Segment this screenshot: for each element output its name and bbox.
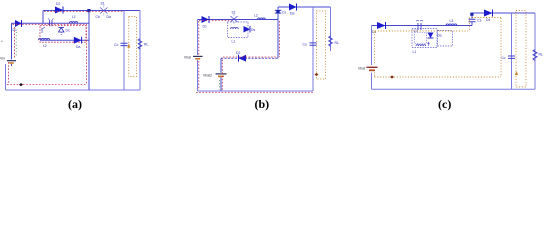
red vertical beside battery lower — [8, 62, 10, 85]
svg-text:Vbat: Vbat — [184, 56, 191, 60]
wire battery2 stem b — [220, 58, 222, 91]
orange dotted path (c) — [375, 18, 502, 78]
capacitor C2 series on rail (c) — [416, 21, 423, 30]
wire C3 stem c — [471, 13, 473, 26]
red path on top rail — [44, 11, 124, 13]
svg-text:Cs: Cs — [282, 11, 286, 15]
diode D1 (c) — [372, 22, 386, 34]
svg-text:L2: L2 — [254, 14, 258, 18]
capacitor Co (a) — [114, 43, 128, 47]
diode Da (b) — [289, 4, 297, 16]
svg-text:RL: RL — [144, 43, 148, 47]
wire top right rail c — [472, 12, 535, 14]
orange left battery path c — [374, 32, 376, 78]
inductor inside box (b) — [231, 27, 239, 29]
wire lower-left edge a — [5, 64, 7, 90]
diode D2 (a) top rail — [55, 2, 63, 14]
inductor L1 inside box (c) — [416, 43, 430, 47]
resistor RL (b) — [329, 36, 333, 46]
diode Ds inside box (b) — [244, 26, 256, 33]
svg-text:Co: Co — [114, 43, 118, 47]
orange down right mid c — [500, 18, 502, 77]
battery Vbat2 (b) — [203, 74, 227, 78]
orange dotted load loop (c) — [516, 11, 526, 88]
junction node (a) top rail — [87, 9, 90, 12]
red battery2 path b — [221, 60, 223, 91]
orange below main rail c — [375, 30, 468, 32]
wire top rail b — [198, 19, 279, 21]
dashed component box (b) — [228, 22, 249, 38]
svg-text:Vin: Vin — [0, 57, 5, 61]
wire right edge a — [139, 11, 141, 91]
wire battery branch a — [11, 23, 13, 66]
capacitor Co (b) — [303, 43, 317, 47]
battery Vin (a) — [0, 57, 16, 64]
orange up to top rail c — [469, 18, 471, 31]
arrow diamond (b) — [315, 73, 319, 76]
inductor L1 on rail2 (a) — [70, 22, 78, 24]
wire main rail c — [372, 25, 473, 27]
svg-text:Co: Co — [501, 56, 505, 60]
wire Co branch c — [511, 13, 513, 89]
wire rail y58 b — [221, 57, 278, 59]
wire left edge b — [197, 20, 199, 92]
diode Ds vertical (a) — [59, 28, 70, 36]
wire bottom a — [6, 89, 141, 91]
svg-text:Ds: Ds — [66, 29, 70, 33]
svg-text:L1: L1 — [413, 50, 417, 54]
svg-text:D4: D4 — [486, 18, 490, 22]
svg-text:RL: RL — [335, 41, 339, 45]
svg-text:S1: S1 — [101, 2, 105, 6]
orange along top rail c — [472, 17, 501, 19]
wire Co branch a — [123, 11, 125, 91]
svg-text:D2: D2 — [56, 2, 60, 6]
battery Vbat (c) — [358, 67, 378, 71]
svg-text:C3: C3 — [477, 19, 481, 23]
wire RL branch b — [330, 7, 332, 51]
resistor RL (a) on right edge — [138, 39, 142, 49]
capacitor Co (c) — [501, 56, 515, 60]
red path on rail2 — [13, 23, 87, 25]
diode Ds down (c) — [428, 33, 442, 39]
red on left edge b — [198, 21, 200, 55]
svg-text:(b): (b) — [255, 97, 270, 111]
wire rail2 a — [12, 22, 90, 24]
diode D1 (b) — [202, 16, 210, 29]
red on top rail b — [199, 20, 232, 22]
svg-text:D2: D2 — [236, 51, 240, 55]
arrow diamond (a) — [19, 83, 23, 86]
wire Co branch b — [312, 7, 314, 91]
wire right edge c — [534, 13, 536, 89]
dashed component box (c) — [412, 29, 437, 48]
wire stub x43 a — [42, 11, 44, 24]
svg-text:L2: L2 — [43, 44, 47, 48]
red dashed overlays (b) — [196, 21, 313, 93]
switch glyph inside box (a) — [41, 27, 45, 33]
capacitor C3 (c) — [469, 13, 482, 23]
red bottom return — [7, 84, 87, 86]
diode D1 (a) — [13, 20, 22, 32]
dashed component box2 (c) — [438, 31, 453, 47]
diode D3 lower rail (a) — [74, 37, 82, 49]
red beside x278 vertical b — [278, 21, 280, 57]
wire Cs stem b — [277, 7, 279, 58]
capacitor Cs (b) — [275, 10, 287, 15]
svg-text:Co: Co — [303, 43, 307, 47]
svg-text:L1: L1 — [72, 15, 76, 19]
red below bottom b — [196, 91, 313, 93]
inductor on lower rail (a) — [39, 39, 50, 41]
svg-text:Cb: Cb — [96, 15, 100, 19]
orange arrow up (a) — [127, 44, 130, 48]
dashed red box (a) — [40, 26, 86, 43]
svg-text:Vbat: Vbat — [358, 67, 365, 71]
svg-text:(c): (c) — [438, 97, 451, 111]
capacitor C1 series on rail2 (a) — [48, 18, 54, 26]
wire top rail a — [43, 10, 140, 12]
green dashed segment (a) — [15, 32, 17, 56]
red on y58 rail b — [223, 56, 276, 58]
red vertical x86.5 — [86, 24, 88, 85]
wire mid vertical x89 a — [88, 11, 90, 91]
svg-text:L3: L3 — [450, 19, 454, 23]
inductor L2 on top rail (b) — [258, 18, 266, 20]
inner dashed box (c) — [415, 33, 427, 44]
red dashed path overlays (a) — [7, 12, 124, 85]
diode D4 (c) — [484, 10, 493, 23]
switch S1 (b) — [231, 14, 238, 24]
resistor RL (c) on right edge — [533, 50, 537, 61]
svg-text:RL: RL — [539, 53, 543, 57]
svg-text:S1: S1 — [232, 11, 236, 15]
svg-text:Ds: Ds — [251, 28, 255, 32]
switch S1 (a) top rail — [98, 6, 110, 16]
orange dotted load loop (b) — [317, 11, 326, 79]
red on left edge lower b — [198, 61, 200, 90]
diode D2 left-pointing (b) — [236, 51, 246, 62]
svg-text:L1: L1 — [232, 40, 236, 44]
svg-text:+: + — [1, 40, 3, 44]
svg-text:Da: Da — [290, 12, 294, 16]
inductor L3 on rail (c) — [446, 24, 457, 26]
red vertical upper left — [14, 27, 16, 58]
svg-text:D1: D1 — [203, 25, 207, 29]
svg-text:Da: Da — [107, 15, 111, 19]
orange bottom return c — [375, 76, 502, 78]
wire bottom b — [198, 90, 314, 92]
orange dotted load loop (a) — [129, 17, 137, 77]
wire upper-right rail b — [278, 6, 331, 8]
svg-text:Vbat2: Vbat2 — [203, 74, 212, 78]
arrow diamond (c) — [390, 75, 394, 78]
svg-text:Ds: Ds — [438, 34, 442, 38]
wire bottom c — [372, 88, 536, 90]
svg-text:Da: Da — [76, 45, 80, 49]
wire lower rail a — [40, 39, 89, 41]
svg-text:(a): (a) — [68, 97, 82, 111]
green dashed segment (b) — [219, 80, 221, 90]
battery Vbat (b) on left edge — [184, 56, 203, 60]
orange arrow up (c) — [515, 71, 518, 75]
wire left edge c — [371, 26, 373, 90]
